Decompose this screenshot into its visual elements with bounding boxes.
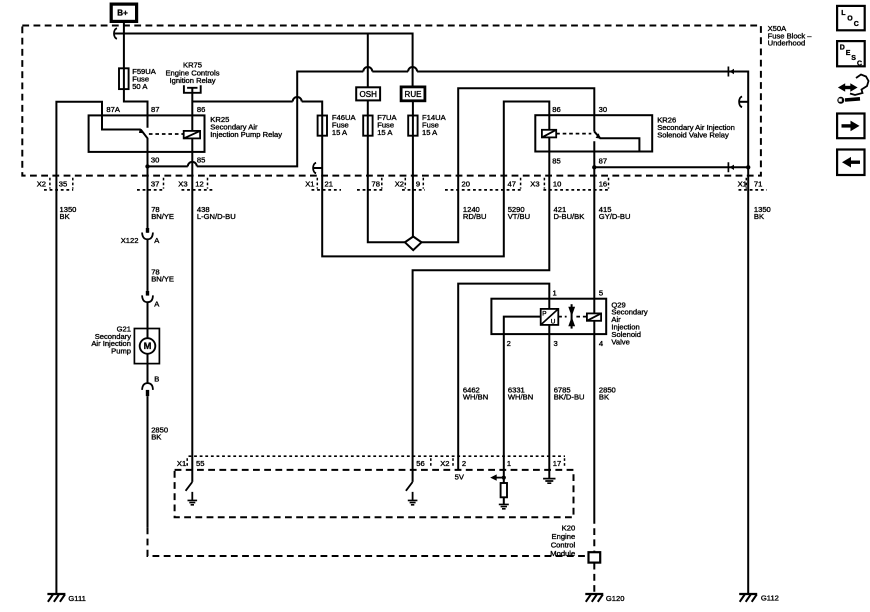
svg-text:B: B (154, 375, 159, 384)
svg-text:30: 30 (151, 156, 159, 165)
svg-text:BK: BK (60, 212, 70, 221)
svg-text:C: C (854, 21, 859, 28)
svg-text:Injection Pump Relay: Injection Pump Relay (210, 130, 282, 139)
svg-text:WH/BN: WH/BN (508, 392, 533, 401)
svg-text:10: 10 (553, 179, 561, 188)
svg-text:87: 87 (151, 105, 159, 114)
svg-text:15 A: 15 A (332, 128, 348, 137)
svg-text:BK: BK (754, 212, 764, 221)
svg-text:16: 16 (599, 179, 607, 188)
svg-text:X2: X2 (395, 179, 404, 188)
svg-text:2: 2 (507, 339, 511, 348)
svg-text:X2: X2 (440, 459, 449, 468)
svg-text:2: 2 (462, 459, 466, 468)
svg-text:U: U (551, 319, 556, 326)
svg-text:BK/D-BU: BK/D-BU (554, 392, 585, 401)
svg-text:X2: X2 (37, 179, 46, 188)
svg-text:B+: B+ (117, 9, 128, 18)
svg-text:9: 9 (416, 179, 420, 188)
svg-text:BK: BK (151, 432, 161, 441)
svg-text:X3: X3 (178, 179, 187, 188)
svg-text:OSH: OSH (360, 90, 378, 99)
svg-text:GY/D-BU: GY/D-BU (599, 212, 631, 221)
svg-text:30: 30 (599, 105, 607, 114)
svg-text:D-BU/BK: D-BU/BK (554, 212, 585, 221)
svg-text:87: 87 (599, 156, 607, 165)
svg-text:35: 35 (59, 179, 67, 188)
svg-text:L-GN/D-BU: L-GN/D-BU (197, 212, 236, 221)
svg-text:50 A: 50 A (132, 82, 148, 91)
svg-text:17: 17 (553, 459, 561, 468)
svg-text:Ignition Relay: Ignition Relay (169, 76, 215, 85)
svg-text:WH/BN: WH/BN (463, 392, 488, 401)
svg-text:3: 3 (554, 339, 558, 348)
svg-text:X122: X122 (121, 236, 139, 245)
svg-text:X1: X1 (177, 459, 186, 468)
svg-text:O: O (847, 16, 853, 23)
svg-text:47: 47 (508, 179, 516, 188)
svg-text:21: 21 (325, 179, 333, 188)
svg-text:15 A: 15 A (422, 128, 438, 137)
svg-text:85: 85 (552, 156, 560, 165)
svg-text:BN/YE: BN/YE (151, 212, 174, 221)
svg-text:G112: G112 (761, 594, 779, 603)
svg-text:X1: X1 (305, 179, 314, 188)
svg-text:5V: 5V (455, 473, 465, 482)
svg-text:15 A: 15 A (377, 128, 393, 137)
svg-text:C: C (857, 60, 862, 67)
svg-text:E: E (846, 50, 851, 57)
svg-text:D: D (840, 45, 845, 52)
svg-text:37: 37 (151, 179, 159, 188)
svg-text:4: 4 (599, 339, 603, 348)
svg-text:85: 85 (197, 156, 205, 165)
svg-text:L: L (841, 10, 846, 17)
svg-text:X3: X3 (530, 179, 539, 188)
svg-text:S: S (851, 55, 856, 62)
svg-text:P: P (542, 310, 546, 317)
svg-text:12: 12 (195, 179, 203, 188)
svg-text:RUE: RUE (405, 90, 422, 99)
svg-text:56: 56 (416, 459, 424, 468)
svg-text:BN/YE: BN/YE (151, 274, 174, 283)
svg-text:RD/BU: RD/BU (463, 212, 487, 221)
svg-text:Module: Module (550, 549, 575, 558)
svg-text:5: 5 (599, 289, 603, 298)
svg-text:M: M (144, 341, 152, 351)
svg-text:86: 86 (552, 105, 560, 114)
svg-text:Solenoid Valve Relay: Solenoid Valve Relay (657, 131, 729, 140)
svg-text:G120: G120 (606, 594, 625, 603)
svg-text:55: 55 (196, 459, 204, 468)
svg-text:87A: 87A (106, 105, 120, 114)
svg-text:VT/BU: VT/BU (508, 212, 530, 221)
svg-text:Underhood: Underhood (768, 38, 806, 47)
svg-text:1: 1 (553, 289, 557, 298)
svg-text:BK: BK (599, 392, 609, 401)
svg-text:X1: X1 (738, 179, 747, 188)
svg-text:G111: G111 (68, 594, 85, 603)
svg-text:86: 86 (197, 105, 205, 114)
svg-text:1: 1 (507, 459, 511, 468)
svg-text:Pump: Pump (111, 346, 131, 355)
svg-text:20: 20 (462, 179, 470, 188)
svg-text:71: 71 (754, 179, 762, 188)
svg-text:78: 78 (372, 179, 380, 188)
svg-text:Valve: Valve (611, 337, 629, 346)
